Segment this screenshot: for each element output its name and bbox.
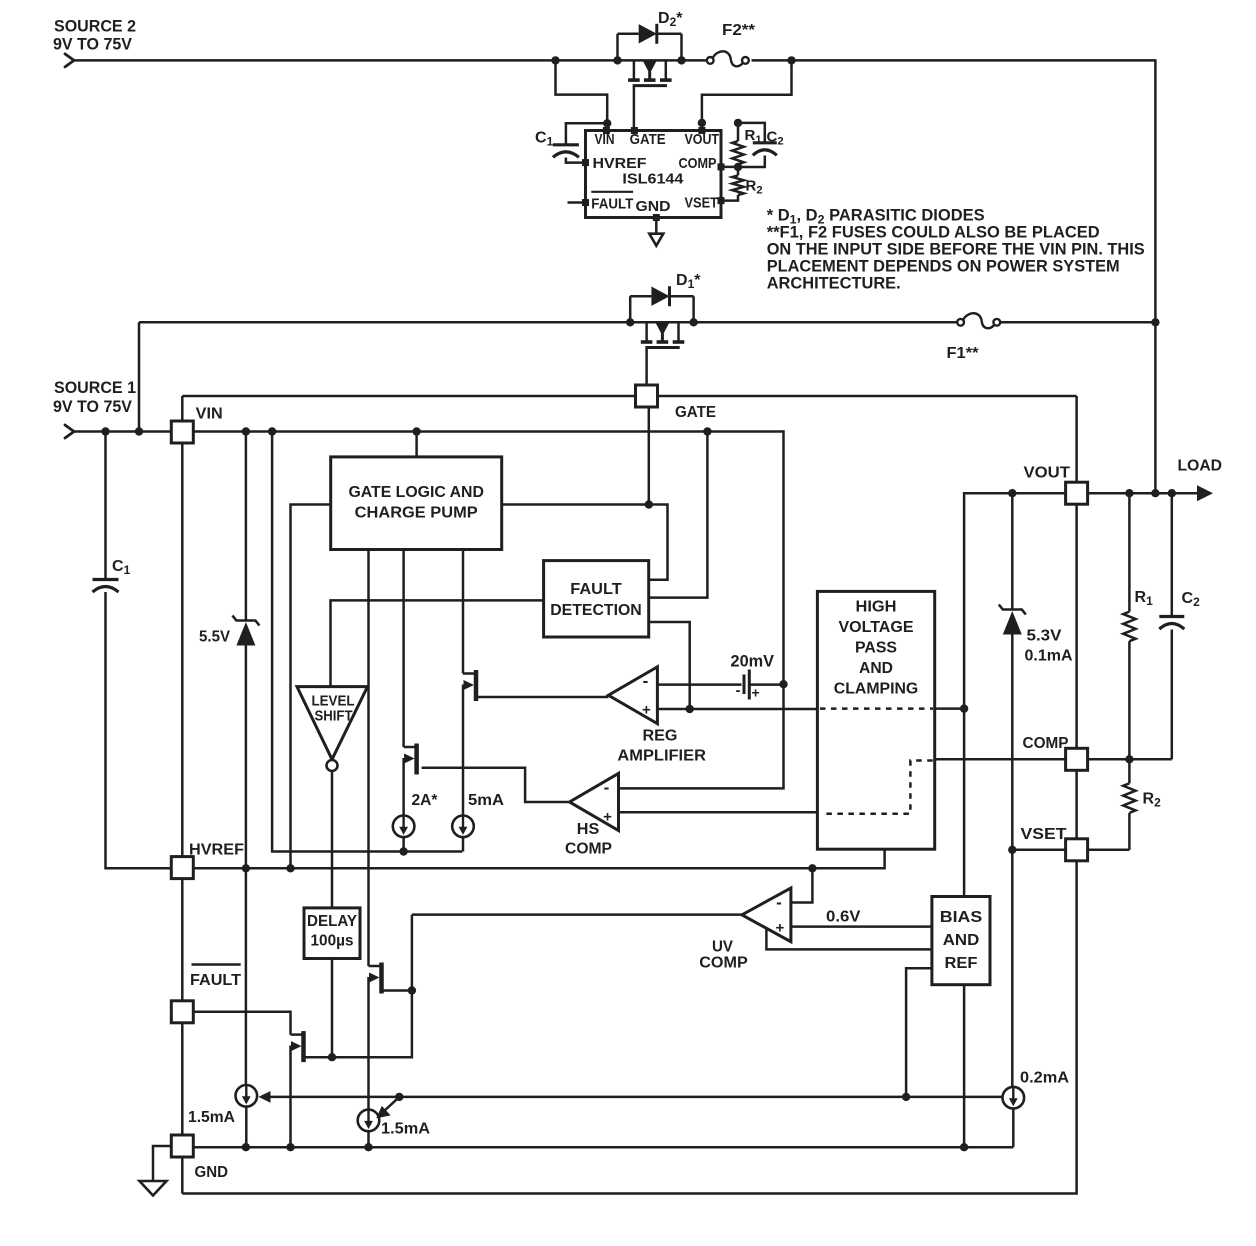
wire isrc return rail [272, 432, 462, 852]
wire reg fet line down to 5mA [462, 685, 465, 816]
pin VIN square [171, 421, 193, 443]
svg-text:LOAD: LOAD [1178, 458, 1223, 475]
transistor Q (ORing FET 1) [641, 322, 685, 385]
svg-text:FAULT: FAULT [591, 196, 633, 213]
wire uv output vertical [305, 915, 412, 1058]
wire FAULT-GND vertical [181, 1023, 184, 1135]
capacitor C2 (main) [1159, 493, 1184, 759]
capacitor C1 (main) [93, 432, 172, 869]
svg-text:VIN: VIN [196, 406, 223, 423]
pin FAULT square [171, 1001, 193, 1023]
wire charge pump top lead [415, 432, 418, 457]
diode D2 parasitic [618, 24, 682, 61]
svg-text:5.3V: 5.3V [1027, 628, 1062, 645]
svg-text:COMP: COMP [699, 955, 748, 972]
svg-text:GND: GND [636, 198, 671, 215]
svg-text:HIGH: HIGH [856, 599, 897, 616]
wire GND rail [193, 1146, 1013, 1149]
pin label HVREF (top) [593, 155, 647, 172]
current source 1.5mA (fault) [236, 1085, 258, 1107]
label C2 (top) [767, 129, 784, 148]
node junction dot D1 drain [689, 318, 697, 326]
wire HVREF-FAULT vertical [181, 879, 184, 1001]
pin tick VOUT (top) [699, 128, 705, 134]
label R1 (top) [745, 127, 762, 146]
transistor Q 2A switch [404, 744, 417, 775]
node junction dot bias isrc [902, 1093, 910, 1101]
svg-text:20mV: 20mV [731, 652, 775, 671]
node junction dot zener 5.5V top [242, 427, 250, 435]
svg-text:GND: GND [195, 1164, 229, 1181]
node junction dot VOUT pin (top) [698, 119, 706, 127]
svg-text:CHARGE PUMP: CHARGE PUMP [355, 504, 478, 521]
node junction dot F1/source2 [1151, 318, 1159, 326]
op-amp UV COMP [742, 888, 791, 942]
wire zener line down (hvref to gnd) [245, 868, 248, 1147]
svg-text:1.5mA: 1.5mA [381, 1121, 430, 1138]
wire level shift output to delay [331, 771, 334, 908]
pin label FAULT (top) with overline [591, 192, 633, 213]
wire COMP to hv block [935, 758, 1066, 761]
svg-text:0.2mA: 0.2mA [1020, 1070, 1069, 1087]
svg-text:PASS: PASS [855, 640, 897, 657]
wire VIN supply to ISL6144 (top) [556, 60, 608, 130]
capacitor C1 (top) [553, 123, 607, 162]
wire bias bottom to GND [963, 985, 966, 1147]
wire GND square bottom to rail [181, 1157, 184, 1194]
node junction dot gnd zener line [242, 1143, 250, 1151]
pin tick HVREF (top) [583, 160, 589, 166]
diode D1 parasitic [630, 286, 693, 322]
node junction dot bias gnd [960, 1143, 968, 1151]
node junction dot delay fet [408, 986, 416, 994]
transistor Q delay pass [369, 963, 382, 994]
node junction dot C1 branch [101, 427, 109, 435]
node junction dot source2-vin branch [551, 56, 559, 64]
node junction dot charge pump top [412, 427, 420, 435]
pin COMP square [1066, 748, 1088, 770]
label UV COMP [699, 939, 748, 972]
node junction dot VOUT branch top [787, 56, 795, 64]
wire uv output to delay fet [412, 913, 746, 916]
svg-text:AND: AND [859, 660, 893, 677]
svg-text:9V TO 75V: 9V TO 75V [53, 35, 133, 54]
wire VIN rail corner down to 20mV node [782, 430, 785, 684]
note text parasitic diodes / fuses [767, 206, 1145, 292]
node junction dot isrc arrow [395, 1093, 403, 1101]
svg-text:GATE: GATE [675, 404, 716, 421]
label 0.2mA [1020, 1070, 1069, 1087]
resistor R2 (main) [1123, 759, 1135, 850]
svg-text:ON THE INPUT SIDE BEFORE THE V: ON THE INPUT SIDE BEFORE THE VIN PIN. TH… [767, 241, 1145, 259]
svg-text:1.5mA: 1.5mA [188, 1109, 235, 1126]
wire reg+ input [657, 708, 817, 711]
node junction dot source2 join [1151, 489, 1159, 497]
wire hs+ input [619, 811, 818, 814]
wire fault detection to reg+ [649, 622, 690, 709]
wire F2 to right edge [752, 59, 1156, 62]
wire VIN square top to GATE wire [182, 396, 635, 421]
chip ISL6144 (top block) [586, 131, 722, 218]
label R2 (main) [1143, 791, 1162, 810]
wire D1 rail [139, 322, 957, 431]
wire VSET left to zener [1012, 849, 1065, 852]
node junction dot 2A source bottom [399, 847, 407, 855]
current source 5mA [452, 816, 474, 838]
svg-text:0.6V: 0.6V [826, 909, 861, 926]
svg-text:ISL6144: ISL6144 [622, 171, 684, 188]
label 5mA [468, 792, 504, 809]
wire reg- input to battery [657, 683, 741, 686]
wire isrc control line with arrow [259, 1091, 1002, 1103]
svg-text:BIAS: BIAS [940, 909, 983, 926]
node SOURCE 2 input label [53, 17, 136, 54]
wire right edge vertical source2 [1154, 59, 1157, 493]
node junction dot COMP node (top) [734, 163, 742, 171]
pin label COMP [1023, 735, 1069, 752]
svg-text:F2**: F2** [722, 22, 756, 39]
node junction dot zener 5.3V top [1008, 489, 1016, 497]
wire FAULT stub (top) [568, 201, 586, 204]
pin HVREF square [171, 857, 193, 879]
capacitor C2 (top) [738, 123, 777, 167]
pin tick FAULT (top) [583, 200, 589, 206]
svg-text:HVREF: HVREF [593, 155, 647, 172]
wire 5mA source to rail [462, 837, 465, 851]
svg-text:+: + [642, 702, 651, 719]
node junction dot gate node [645, 500, 653, 508]
wire fault detection feed from VIN rail [649, 432, 708, 598]
current source 1.5mA (delay) [358, 1110, 380, 1132]
resistor R2 (top) [721, 167, 744, 201]
wire dashed internal reg path [820, 707, 933, 710]
wire diagonal adjust arrow [376, 1097, 399, 1118]
svg-text:**F1, F2 FUSES COULD ALSO BE P: **F1, F2 FUSES COULD ALSO BE PLACED [767, 223, 1100, 241]
svg-text:SHIFT: SHIFT [315, 709, 353, 725]
wire GATE pin down to charge pump node [648, 407, 651, 505]
svg-text:DETECTION: DETECTION [550, 602, 642, 619]
node junction dot 20mV/VIN [779, 680, 787, 688]
node junction dot delay join [328, 1053, 336, 1061]
pin tick VIN (top) [603, 128, 609, 134]
pin tick GND (top) [653, 215, 659, 221]
label 0.6V [826, 909, 861, 926]
wire delay output [331, 959, 334, 1058]
label R2 (top) [746, 178, 763, 197]
op-amp REG AMPLIFIER [608, 667, 657, 724]
pin label VSET [1021, 826, 1067, 843]
node junction dot D1 left [135, 427, 143, 435]
block DELAY 100us [304, 908, 360, 959]
label C1 (main) [112, 558, 131, 577]
svg-text:COMP: COMP [565, 841, 612, 858]
wire reg node to right (dot) [935, 704, 969, 712]
wire VSET bottom rail [182, 861, 1076, 1194]
svg-text:100µs: 100µs [311, 933, 354, 950]
svg-text:+: + [603, 809, 612, 826]
transistor Q (ORing FET 2) [628, 60, 672, 130]
pin label GND (top) [636, 198, 671, 215]
label R1 (main) [1135, 589, 1154, 608]
label 5.3V 0.1mA [1025, 628, 1073, 665]
svg-text:FAULT: FAULT [570, 581, 622, 598]
node junction dot gnd delay line [364, 1143, 372, 1151]
transistor Q reg pass [463, 670, 476, 701]
node junction dot VIN pin (top) [603, 119, 611, 127]
wire hv block bottom to HVREF rail [812, 849, 884, 868]
wire charge pump lead C (reg fet) [462, 550, 465, 674]
svg-text:SOURCE 2: SOURCE 2 [54, 17, 136, 36]
wire VIN rail with input chevron [65, 425, 784, 438]
svg-text:COMP: COMP [679, 155, 717, 172]
pin label GND [195, 1164, 229, 1181]
pin VOUT square [1066, 482, 1088, 504]
node junction dot reg+ fault [686, 705, 694, 713]
label BIAS AND REF [940, 909, 983, 972]
wire GATE to VOUT rail [658, 396, 1077, 482]
pin GATE square [636, 385, 658, 407]
wire HVREF rail [193, 867, 884, 870]
label F2** [722, 22, 756, 39]
node junction dot gnd fault fet [286, 1143, 294, 1151]
wire bias left lead to isrc rail [906, 968, 932, 1097]
diode zener 5.5V [232, 432, 259, 869]
battery 20mV offset [736, 670, 784, 701]
wire FAULT to fet gate [193, 1012, 290, 1035]
wire uv lower lead to bias [766, 928, 932, 950]
wire VSET right to R2 [1088, 849, 1130, 852]
svg-text:HVREF: HVREF [189, 842, 244, 859]
fuse F2 [707, 51, 749, 66]
svg-text:F1**: F1** [947, 345, 980, 362]
label 1.5mA (fault) [188, 1109, 235, 1126]
ground GND symbol (top) [649, 218, 663, 246]
wire delay fet source to uv line [384, 989, 412, 992]
pin label HVREF [189, 842, 244, 859]
node junction dot vset zener [1008, 846, 1016, 854]
svg-text:-: - [643, 672, 649, 691]
svg-text:-: - [776, 893, 782, 912]
wire charge pump lead A (delay fet) [367, 550, 370, 967]
pin GND square [171, 1135, 193, 1157]
label HS COMP [565, 821, 612, 858]
svg-text:0.1mA: 0.1mA [1025, 648, 1073, 665]
node junction dot hvref cp [286, 864, 294, 872]
pin label VOUT [1024, 465, 1071, 482]
svg-text:UV: UV [712, 939, 733, 956]
pin VSET square [1066, 839, 1088, 861]
wire uv+ 0.6V from bias [791, 925, 932, 928]
svg-text:FAULT: FAULT [190, 972, 241, 989]
pin label GATE (top) [630, 131, 666, 148]
pin tick GATE (top) [631, 128, 637, 134]
current source 0.2mA [1003, 1087, 1025, 1109]
svg-text:VOUT: VOUT [1024, 465, 1071, 482]
svg-text:-: - [604, 778, 610, 797]
wire VOUT left to hv block [964, 493, 1065, 896]
resistor R1 (main) [1123, 493, 1135, 759]
svg-text:+: + [776, 920, 785, 937]
pin label COMP (top) [679, 155, 717, 172]
wire fault-detect to level shift [331, 600, 544, 686]
node junction dot fault-detect feed [703, 427, 711, 435]
wire 0.2mA feed from vset zener [1012, 850, 1013, 1147]
node junction dot C2 top [1168, 489, 1176, 497]
wire charge pump left to HVREF [291, 505, 331, 869]
pin tick VSET (top) [718, 198, 724, 204]
wire fault fet line down to GND [289, 1046, 292, 1148]
label 5.5V [199, 629, 230, 646]
wire VOUT to LOAD [1088, 485, 1213, 501]
svg-text:DELAY: DELAY [307, 913, 358, 930]
label LEVEL SHIFT [312, 694, 355, 725]
current source 2A* [393, 816, 415, 838]
wire VOUT supply to ISL6144 (top) [702, 60, 792, 130]
pin label VSET (top) [685, 195, 719, 212]
svg-text:SOURCE 1: SOURCE 1 [54, 378, 136, 397]
svg-text:9V TO 75V: 9V TO 75V [53, 397, 133, 416]
wire hs- input from VIN line [619, 684, 784, 788]
wire F1 to right edge [1001, 321, 1155, 324]
wire delay fet line down to GND [367, 977, 370, 1147]
svg-text:AND: AND [943, 932, 980, 949]
svg-text:VSET: VSET [685, 195, 719, 212]
svg-text:GATE: GATE [630, 131, 666, 148]
node junction dot D2 drain [677, 56, 685, 64]
wire SOURCE 2 rail with input chevron [65, 54, 706, 67]
svg-text:ARCHITECTURE.: ARCHITECTURE. [767, 275, 901, 293]
label F1** [947, 345, 980, 362]
ground symbol (bottom left) [140, 1146, 172, 1196]
svg-text:HS: HS [577, 821, 600, 838]
fuse F1 [957, 313, 1000, 328]
node junction dot D2 source [613, 56, 621, 64]
wire reg fet source to amp output [478, 696, 608, 699]
wire 2A source to rail [402, 837, 405, 851]
op-amp HS COMP [570, 773, 619, 830]
svg-text:5.5V: 5.5V [199, 629, 230, 646]
node junction dot R1 top [1125, 489, 1133, 497]
svg-text:AMPLIFIER: AMPLIFIER [617, 748, 706, 765]
label FAULT pin with overline [190, 965, 241, 990]
block LEVEL SHIFT triangle [297, 687, 368, 771]
svg-text:COMP: COMP [1023, 735, 1069, 752]
label 20mV [731, 652, 775, 671]
label DELAY 100us [307, 913, 358, 950]
label REG AMPLIFIER [617, 728, 706, 765]
svg-text:5mA: 5mA [468, 792, 504, 809]
svg-text:REG: REG [643, 728, 678, 745]
node junction dot D1 source [626, 318, 634, 326]
node junction dot R1 top (top) [734, 119, 742, 127]
label LOAD [1178, 458, 1223, 475]
pin tick COMP (top) [718, 164, 724, 170]
label GATE LOGIC AND CHARGE PUMP [348, 484, 484, 521]
block BIAS AND REF [932, 897, 990, 985]
svg-text:VOLTAGE: VOLTAGE [839, 619, 914, 636]
svg-text:REF: REF [945, 955, 978, 972]
wire COMP right to divider [1088, 758, 1172, 761]
wire hs output to 2A fet [422, 768, 570, 802]
svg-text:2A*: 2A* [412, 792, 439, 809]
label HIGH VOLTAGE PASS AND CLAMPING [834, 599, 919, 698]
node junction dot isrc-return branch [268, 427, 276, 435]
pin label VIN (top) [595, 131, 615, 148]
svg-text:LEVEL: LEVEL [312, 694, 355, 710]
block FAULT DETECTION [544, 561, 649, 637]
wire charge pump lead B (2A fet) [402, 550, 405, 748]
node junction dot hvref uv [808, 864, 816, 872]
label 2A* [412, 792, 439, 809]
block HIGH VOLTAGE PASS AND CLAMPING [817, 591, 934, 849]
wire VOUT-COMP vertical [1075, 505, 1078, 749]
wire charge pump right to fault detection [502, 505, 668, 580]
svg-text:PLACEMENT DEPENDS ON POWER SYS: PLACEMENT DEPENDS ON POWER SYSTEM [767, 257, 1120, 275]
label D1* [676, 272, 701, 291]
wire COMP pin to divider (top) [721, 166, 738, 169]
label D2* [658, 10, 683, 29]
label C1 (top) [535, 130, 554, 149]
resistor R1 (top) [732, 123, 744, 167]
wire dashed internal comp path [826, 761, 933, 814]
node junction dot comp node [1125, 755, 1133, 763]
svg-text:VIN: VIN [595, 131, 615, 148]
node SOURCE 1 input label [53, 378, 136, 416]
diode zener 5.3V [999, 493, 1026, 850]
transistor Q fault [291, 1031, 304, 1062]
label 1.5mA (delay) [381, 1121, 430, 1138]
svg-text:VSET: VSET [1021, 826, 1067, 843]
block GATE LOGIC AND CHARGE PUMP [331, 457, 502, 550]
svg-text:CLAMPING: CLAMPING [834, 681, 919, 698]
svg-text:+: + [752, 685, 760, 701]
svg-text:-: - [736, 682, 741, 699]
label ISL6144 [622, 171, 684, 188]
wire 2A fet line down [402, 758, 405, 816]
wire COMP-VSET vertical [1075, 770, 1078, 838]
label FAULT DETECTION [550, 581, 642, 619]
wire uv- to HVREF [791, 868, 813, 902]
pin label VOUT (top) [685, 131, 720, 148]
wire VIN pins vertical (VIN to HVREF) [181, 443, 184, 857]
svg-text:GATE LOGIC AND: GATE LOGIC AND [348, 484, 484, 501]
svg-text:VOUT: VOUT [685, 131, 720, 148]
label C2 (main) [1182, 590, 1201, 609]
pin label GATE [675, 404, 716, 421]
node junction dot hvref zener [242, 864, 250, 872]
pin label VIN [196, 406, 223, 423]
